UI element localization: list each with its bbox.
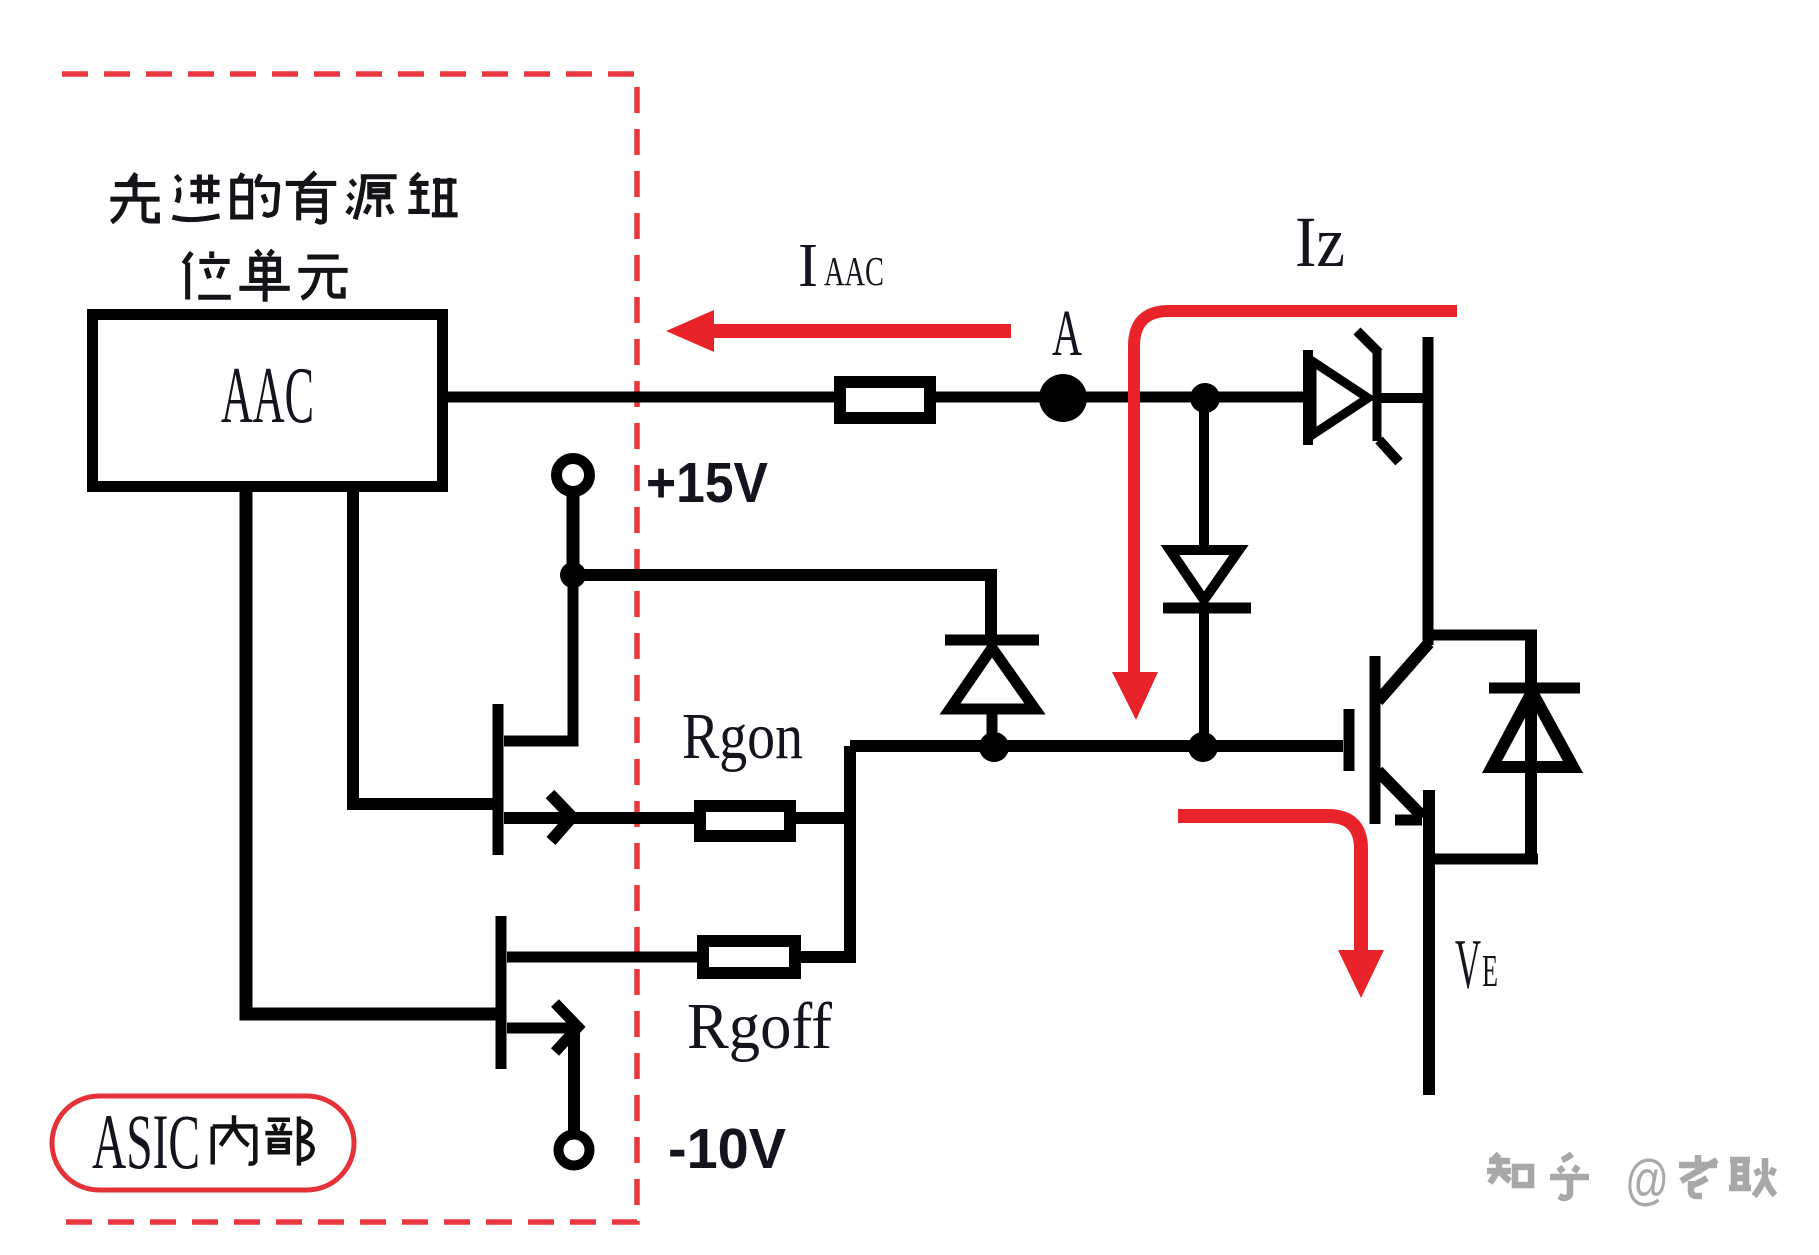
svg-text:-10V: -10V	[668, 1117, 786, 1181]
ASIC boundary dashed border	[62, 74, 637, 1222]
transistor Q3 IGBT	[1349, 635, 1537, 1095]
resistor Rgon	[700, 806, 790, 836]
red line Iz with arrow	[1134, 311, 1457, 675]
char geng	[1729, 1158, 1775, 1196]
svg-text:Rgon: Rgon	[682, 700, 803, 773]
char xian	[110, 173, 159, 222]
zener diode Dz	[1308, 331, 1428, 462]
junction	[1188, 732, 1218, 762]
+15V terminal	[557, 459, 590, 492]
svg-text:@: @	[1625, 1148, 1669, 1211]
char bu	[265, 1116, 312, 1165]
junction	[1190, 383, 1220, 413]
char you	[286, 172, 336, 222]
diode D3 freewheeling	[1489, 635, 1580, 859]
wire: +15V rail	[573, 575, 991, 640]
svg-text:AAC: AAC	[824, 248, 884, 294]
char nei	[213, 1115, 256, 1164]
transistor Q1	[353, 492, 694, 855]
wire: R1 to zener	[936, 392, 1308, 403]
red arrow IAAC	[666, 310, 1011, 352]
wire: Rgoff to bus	[801, 951, 856, 963]
resistor Rgoff	[703, 941, 795, 973]
diode D2	[1163, 398, 1251, 747]
svg-text:V: V	[1455, 926, 1481, 1004]
svg-text:ASIC: ASIC	[92, 1098, 200, 1185]
char jin	[172, 174, 219, 219]
svg-text:I: I	[798, 232, 818, 300]
resistor R1	[840, 382, 930, 418]
terminal -10V	[559, 1135, 590, 1166]
wire: bus vertical	[844, 746, 856, 957]
label: ASIC internal box (red rounded)	[52, 1096, 354, 1190]
label: ASIC internal (Chinese pseudo-glyphs)	[213, 1115, 313, 1165]
node A	[1039, 374, 1087, 422]
wire: +15V down	[567, 491, 580, 575]
wire: emitter to diode bottom	[1429, 854, 1538, 865]
wire: +15V to Q1 collector	[504, 575, 573, 741]
char dan	[239, 250, 289, 302]
char zhi	[1487, 1154, 1531, 1185]
wire: Rgon to bus	[796, 812, 850, 824]
wire: gate rail	[850, 740, 1343, 752]
svg-text:AAC: AAC	[221, 350, 314, 440]
junction	[979, 732, 1009, 762]
char qian	[408, 173, 457, 214]
svg-text:Rgoff: Rgoff	[687, 990, 832, 1063]
char yuan	[347, 177, 396, 220]
label: advanced active clamp unit (Chinese pseudo-glyphs)	[110, 172, 457, 302]
char yuan2	[298, 257, 347, 298]
char de	[233, 173, 278, 217]
svg-text:A: A	[1052, 297, 1082, 370]
red arrow emitter current	[1178, 816, 1361, 950]
svg-text:Iz: Iz	[1295, 202, 1345, 282]
char hu	[1550, 1154, 1589, 1198]
char wei	[184, 251, 231, 299]
wire: collector riser	[1423, 337, 1434, 645]
svg-text:+15V: +15V	[646, 451, 768, 515]
transistor Q2	[246, 492, 703, 1134]
svg-text:E: E	[1482, 946, 1498, 996]
wire: AAC output	[448, 392, 838, 403]
char lao	[1679, 1155, 1717, 1196]
AAC block	[93, 315, 443, 487]
watermark zhihu @laogeng	[1487, 1154, 1775, 1198]
junction	[560, 562, 586, 588]
diode D1	[945, 640, 1039, 747]
